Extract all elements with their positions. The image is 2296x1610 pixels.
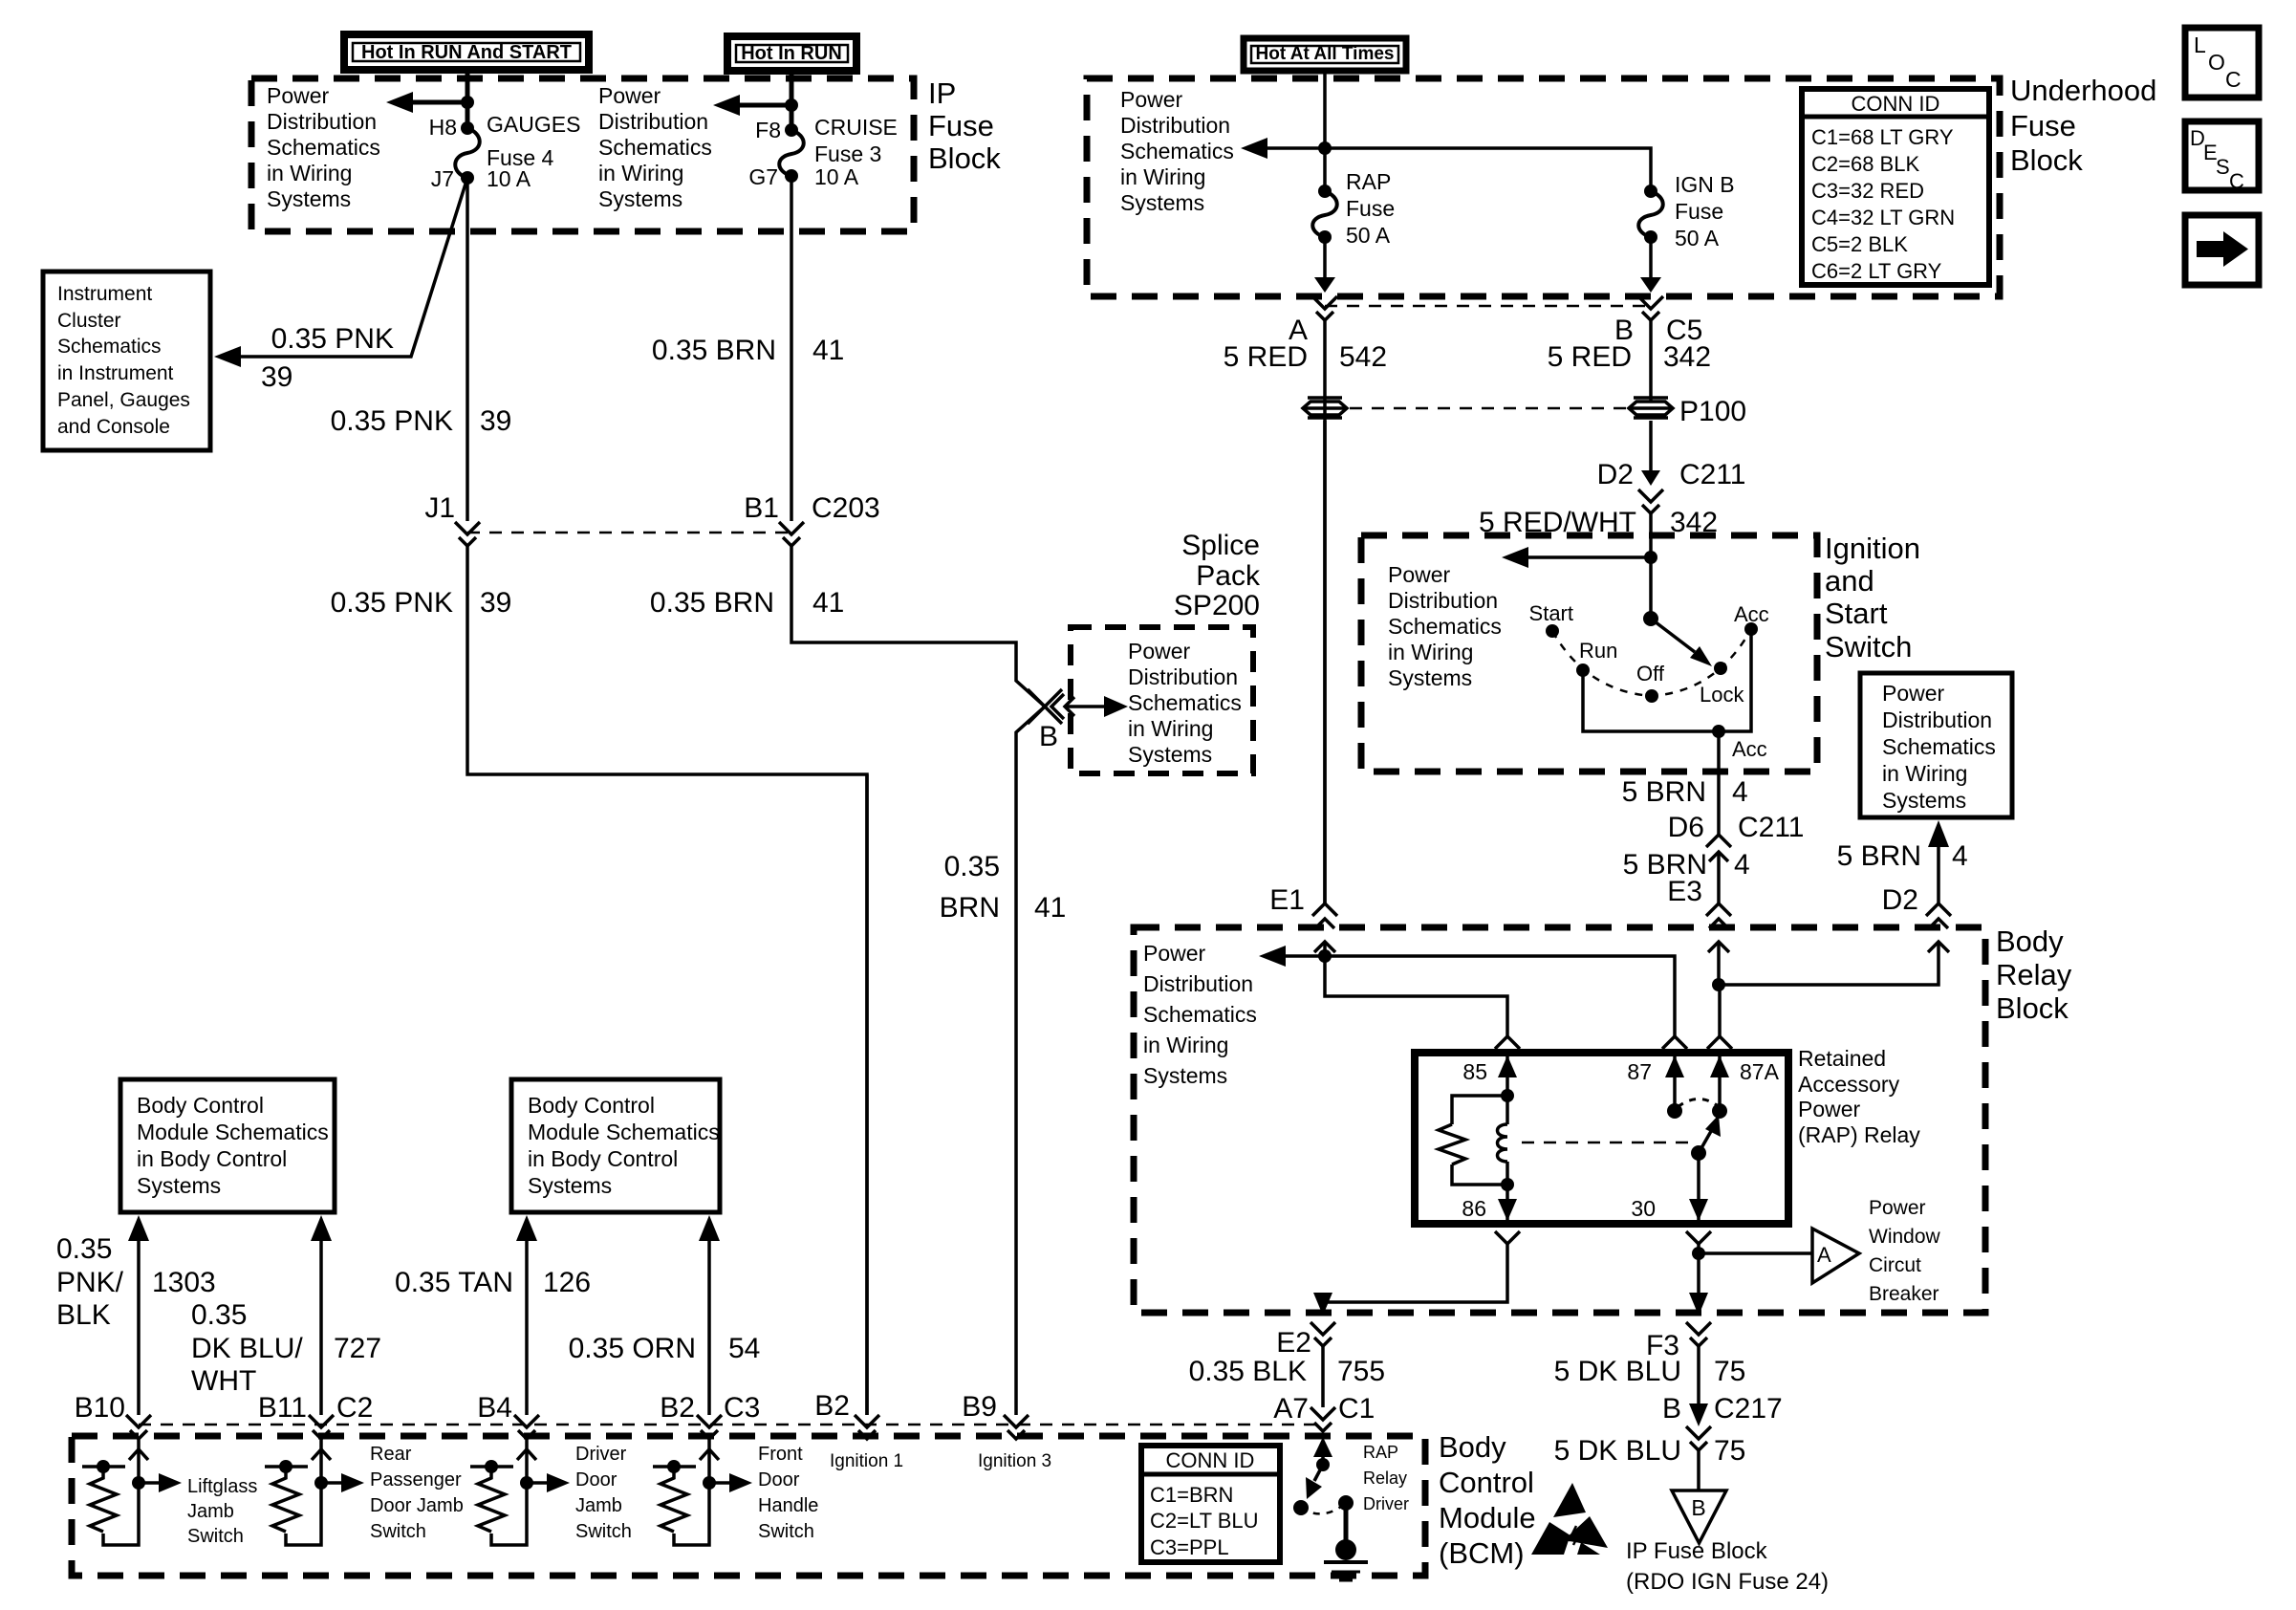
label: Body Relay Block	[1996, 925, 2072, 1025]
svg-text:in Wiring: in Wiring	[1128, 716, 1213, 741]
svg-text:B1: B1	[744, 492, 779, 524]
svg-text:Distribution: Distribution	[1128, 664, 1238, 689]
fuse CRUISE Fuse 3: terminal G7	[785, 169, 798, 183]
svg-text:39: 39	[261, 361, 292, 393]
svg-text:Ignition: Ignition	[1825, 532, 1920, 565]
svg-text:C217: C217	[1714, 1393, 1783, 1425]
label: Front Door Handle Switch	[758, 1444, 818, 1542]
LOC box	[2185, 28, 2259, 98]
svg-text:Distribution: Distribution	[1388, 588, 1498, 613]
wire: 87A riser down to relay	[1718, 985, 1722, 1038]
svg-text:IGN B: IGN B	[1675, 172, 1735, 197]
fuse IGN B element	[1638, 191, 1663, 237]
svg-text:A: A	[1817, 1243, 1831, 1267]
svg-text:IP Fuse Block: IP Fuse Block	[1626, 1538, 1768, 1564]
switch position dot Run	[1576, 664, 1590, 677]
svg-text:Body: Body	[1439, 1430, 1506, 1464]
wire: E3 down to junction with 87A	[1717, 942, 1721, 985]
svg-text:O: O	[2208, 50, 2225, 75]
connector E3 (chevrons)	[1706, 903, 1731, 916]
svg-text:0.35 BLK: 0.35 BLK	[1189, 1356, 1307, 1387]
label: Liftglass Jamb Switch	[187, 1476, 257, 1547]
svg-text:10 A: 10 A	[814, 164, 859, 189]
switch position dot Acc	[1744, 622, 1758, 636]
svg-text:CRUISE: CRUISE	[814, 115, 898, 140]
svg-text:0.35 TAN: 0.35 TAN	[395, 1267, 513, 1298]
svg-text:542: 542	[1339, 341, 1387, 373]
P100 pass-through connector (right)	[1629, 398, 1673, 418]
svg-text:Start: Start	[1529, 601, 1573, 625]
jamb switch 3: Driver Door Jamb	[470, 1439, 632, 1545]
svg-text:J7: J7	[431, 166, 454, 191]
svg-text:Distribution: Distribution	[1882, 707, 1992, 732]
wire: RAP fuse output with arrowhead at box edge	[1323, 237, 1327, 277]
svg-text:Schematics: Schematics	[267, 135, 380, 160]
svg-text:75: 75	[1714, 1435, 1745, 1467]
connector chevrons (B11 C2)	[309, 1415, 334, 1427]
wire: 30 output down out of block with arrowhead	[1697, 1244, 1700, 1312]
dashed arc through switch positions	[1552, 629, 1751, 696]
wire: E1 long vertical (RAP fuse to body relay block)	[1323, 320, 1327, 903]
flow arrowhead below edge on D2 wire	[1928, 942, 1949, 952]
label box: Hot At All Times	[1244, 38, 1406, 71]
svg-text:5 RED: 5 RED	[1548, 341, 1632, 373]
svg-text:Run: Run	[1579, 639, 1617, 663]
connector chevron above relay 85	[1495, 1036, 1520, 1049]
svg-text:Systems: Systems	[1882, 788, 1966, 813]
body relay block inner text	[1143, 941, 1257, 1088]
svg-text:0.35 PNK: 0.35 PNK	[271, 323, 394, 355]
svg-text:Hot In RUN And START: Hot In RUN And START	[361, 42, 572, 63]
box: Body Control Module Schematics (right)	[511, 1079, 720, 1212]
svg-text:C: C	[2229, 169, 2244, 193]
IP fuse block dashed box	[251, 78, 914, 231]
BCM dashed box	[72, 1436, 1425, 1576]
svg-text:0.35 PNK: 0.35 PNK	[331, 405, 453, 437]
dashed contact throw arc	[1678, 1099, 1717, 1107]
switch position dot Start	[1546, 624, 1559, 638]
svg-text:B11: B11	[258, 1392, 307, 1424]
svg-text:41: 41	[812, 587, 844, 619]
dashed mechanical link coil to switch	[1522, 1142, 1688, 1144]
wire: Ignition 1 feed (B2 mid)	[865, 774, 869, 1415]
svg-text:Panel, Gauges: Panel, Gauges	[57, 389, 190, 411]
resistor branch (parallel with coil)	[1452, 1096, 1507, 1124]
wire: branch to power window circuit breaker	[1699, 1251, 1812, 1255]
svg-text:30: 30	[1631, 1196, 1656, 1221]
svg-text:Schematics: Schematics	[1388, 614, 1502, 639]
svg-text:Body: Body	[1996, 925, 2064, 958]
svg-text:Schematics: Schematics	[598, 135, 712, 160]
fuse RAP element	[1312, 191, 1337, 237]
fuse RAP: bottom terminal	[1318, 230, 1332, 244]
svg-text:B: B	[1039, 721, 1058, 752]
junction on 30 output	[1692, 1247, 1705, 1260]
svg-text:C5=2 BLK: C5=2 BLK	[1811, 232, 1908, 256]
ignition box inner text	[1388, 562, 1502, 690]
connector F3 (chevrons)	[1686, 1322, 1711, 1335]
svg-text:Splice: Splice	[1181, 530, 1260, 561]
svg-text:86: 86	[1462, 1196, 1486, 1221]
flow arrowhead below edge on E1 wire	[1314, 942, 1335, 952]
wire: E1 branch to relay 85 terminal	[1325, 956, 1507, 1038]
splice chevrons	[1051, 694, 1064, 719]
label box: Hot In RUN	[727, 36, 856, 71]
fuse IGN B: top terminal	[1644, 185, 1657, 198]
wire: left P100 continues down (E1)	[1323, 421, 1327, 903]
svg-text:E2: E2	[1276, 1327, 1311, 1359]
svg-text:B: B	[1662, 1393, 1681, 1425]
dashed line between P100 halves	[1350, 407, 1626, 410]
wire: 0.35 PNK 39 branch to instrument cluster (diagonal + arrow)	[241, 178, 467, 357]
wire: arrow left (power distribution)	[1286, 954, 1325, 958]
svg-text:WHT: WHT	[191, 1365, 256, 1397]
wire: B11 up into box with arrowhead	[319, 1229, 323, 1415]
svg-text:IP: IP	[928, 76, 956, 110]
junction coil bottom	[1501, 1178, 1514, 1191]
svg-text:C3: C3	[724, 1392, 760, 1424]
svg-text:Body Control: Body Control	[528, 1093, 655, 1118]
relay switch common junction	[1691, 1145, 1706, 1161]
svg-text:Rear: Rear	[370, 1444, 412, 1465]
wire: 0.35 BRN below B1 down, right, jog through splice, down to B9 column	[791, 546, 1045, 1415]
svg-text:5 DK BLU: 5 DK BLU	[1554, 1435, 1681, 1467]
svg-text:Systems: Systems	[1128, 742, 1212, 767]
connector chevron below relay 86	[1495, 1231, 1520, 1244]
svg-text:Schematics: Schematics	[57, 336, 162, 358]
svg-text:C1=BRN: C1=BRN	[1150, 1483, 1233, 1507]
svg-text:BLK: BLK	[56, 1299, 111, 1331]
flow arrowhead below edge on E3 wire	[1708, 942, 1729, 952]
wire: B10 up into box with arrowhead	[137, 1229, 141, 1415]
svg-text:54: 54	[728, 1333, 760, 1364]
svg-text:Door Jamb: Door Jamb	[370, 1495, 464, 1516]
wire: arrow to power distribution (left) from GAUGES feed	[406, 100, 467, 105]
connector chevrons at BCM edge (B10)	[126, 1415, 151, 1427]
jamb switch 2: Rear Passenger Door Jamb	[265, 1439, 464, 1545]
svg-text:Lock: Lock	[1700, 683, 1744, 707]
svg-text:342: 342	[1663, 341, 1711, 373]
solid box: Power Distribution Schematics (right)	[1860, 673, 2012, 817]
svg-text:Power: Power	[1882, 681, 1945, 706]
svg-text:Distribution: Distribution	[598, 109, 708, 134]
resistor zigzag	[1439, 1124, 1465, 1164]
switch position dot Off	[1645, 689, 1658, 703]
svg-text:5 BRN: 5 BRN	[1622, 776, 1706, 808]
relay switch lever with arrowhead toward 87A	[1699, 1126, 1714, 1153]
wire: Run contact to Acc output bracket	[1583, 629, 1751, 731]
svg-text:C2: C2	[336, 1392, 373, 1424]
connector A (chevrons)	[1312, 296, 1337, 309]
connector J1 (chevrons)	[455, 522, 480, 534]
svg-text:S: S	[2216, 155, 2230, 179]
relay coil (bumps)	[1505, 1096, 1509, 1124]
svg-text:C1: C1	[1338, 1393, 1375, 1425]
svg-text:Block: Block	[928, 141, 1001, 175]
svg-text:Ignition 3: Ignition 3	[978, 1451, 1051, 1471]
wire: E1 inside block, junction and branches	[1323, 942, 1327, 956]
junction 87A riser	[1712, 978, 1725, 991]
wire: E2 short vertical	[1321, 1346, 1325, 1407]
DESC box	[2185, 121, 2259, 193]
thin dashed line across BCM connector row	[139, 1424, 1323, 1426]
svg-text:B2: B2	[660, 1392, 695, 1424]
IP fuse block inner text 2	[598, 83, 712, 211]
svg-text:0.35 PNK: 0.35 PNK	[331, 587, 453, 619]
svg-text:5 RED: 5 RED	[1224, 341, 1308, 373]
svg-text:Systems: Systems	[1143, 1063, 1227, 1088]
svg-text:DK BLU/: DK BLU/	[191, 1333, 303, 1364]
svg-text:E3: E3	[1667, 876, 1702, 907]
wire: C5 output down to P100	[1649, 320, 1653, 402]
svg-text:C2=LT BLU: C2=LT BLU	[1150, 1509, 1259, 1533]
connector chevrons (B9 ignition 3)	[1004, 1415, 1029, 1427]
relay pin 30 wire with down arrowhead	[1697, 1153, 1700, 1224]
svg-text:Fuse: Fuse	[2010, 109, 2076, 142]
svg-text:P100: P100	[1679, 396, 1746, 427]
splice SP200 X symbol	[1028, 689, 1062, 724]
connector A7 C1 (chevrons)	[1310, 1407, 1335, 1420]
svg-text:Power: Power	[1388, 562, 1451, 587]
fuse CRUISE Fuse 3 element	[779, 130, 804, 176]
label: 0.35 DK BLU/ WHT	[191, 1299, 303, 1397]
splice arrow into SP200 box	[1067, 705, 1104, 708]
svg-text:Hot In RUN: Hot In RUN	[741, 43, 842, 64]
ground symbol	[1324, 1560, 1368, 1564]
connector C217 (chevrons)	[1686, 1426, 1711, 1439]
svg-text:in Wiring: in Wiring	[1120, 164, 1205, 189]
svg-text:C211: C211	[1679, 459, 1746, 490]
thin dashed line joining A and B C5 connectors	[1325, 305, 1651, 308]
connector D2 (chevrons)	[1926, 903, 1951, 916]
junction on RAP feed	[1318, 141, 1332, 155]
svg-text:Schematics: Schematics	[1143, 1002, 1257, 1027]
ignition switch lever (arrow toward Lock/Acc)	[1651, 619, 1695, 652]
fuse IGN B: bottom terminal	[1644, 230, 1657, 244]
svg-text:GAUGES: GAUGES	[487, 112, 580, 137]
svg-text:in Wiring: in Wiring	[1143, 1033, 1228, 1057]
label box: Hot In RUN And START	[344, 34, 589, 70]
connector chevron above relay 87A	[1707, 1036, 1732, 1049]
wire: down to B triangle	[1697, 1450, 1700, 1490]
svg-text:4: 4	[1732, 776, 1748, 808]
svg-text:Power: Power	[1120, 87, 1183, 112]
RAP relay driver: arrow up to A7	[1321, 1453, 1325, 1465]
label: IGN B Fuse 50 A	[1675, 172, 1735, 250]
wire: E1 to relay 87 terminal	[1325, 956, 1675, 1038]
RAP relay driver pivot	[1316, 1458, 1330, 1471]
junction on GAUGES feed	[461, 96, 474, 109]
svg-text:C1=68 LT GRY: C1=68 LT GRY	[1811, 125, 1954, 149]
svg-text:5 DK BLU: 5 DK BLU	[1554, 1356, 1681, 1387]
svg-text:B10: B10	[75, 1392, 125, 1424]
svg-text:(RAP) Relay: (RAP) Relay	[1798, 1122, 1920, 1147]
svg-text:and: and	[1825, 564, 1874, 598]
connector B1 (chevrons)	[779, 522, 804, 534]
svg-text:126: 126	[543, 1267, 591, 1298]
svg-text:10 A: 10 A	[487, 166, 531, 191]
svg-text:J1: J1	[424, 492, 455, 524]
Ignition and Start Switch dashed box	[1361, 535, 1817, 772]
switch position dot Lock	[1714, 662, 1727, 675]
wire: B4 up into box with arrowhead	[525, 1229, 529, 1415]
flow arrowheads inside BCM on jamb wires	[129, 1449, 148, 1460]
box: Instrument Cluster Schematics	[43, 272, 210, 450]
svg-text:Door: Door	[575, 1469, 617, 1490]
relay pin 85 wire with up arrowhead	[1505, 1053, 1509, 1096]
svg-text:Fuse: Fuse	[1675, 199, 1723, 224]
connector chevron below relay 30	[1686, 1231, 1711, 1244]
box: Body Control Module Schematics (left)	[120, 1079, 335, 1212]
svg-text:F8: F8	[755, 118, 781, 142]
P100 pass-through connector (left)	[1303, 398, 1347, 418]
ESD symbol	[1531, 1483, 1608, 1555]
svg-text:Schematics: Schematics	[1882, 734, 1996, 759]
wire: F3 down to C217 with arrowhead	[1697, 1346, 1700, 1417]
svg-text:Systems: Systems	[267, 186, 351, 211]
svg-text:50 A: 50 A	[1675, 226, 1720, 250]
wire: ignition feed with left arrow	[1649, 513, 1653, 619]
svg-text:Jamb: Jamb	[187, 1501, 234, 1522]
svg-text:Door: Door	[758, 1469, 800, 1490]
svg-text:Systems: Systems	[137, 1173, 221, 1198]
svg-text:(RDO IGN Fuse 24): (RDO IGN Fuse 24)	[1626, 1569, 1829, 1595]
wire: Hot In RUN And START feed down to fuse H8	[466, 70, 470, 128]
IP fuse block inner text 1	[267, 83, 380, 211]
ground stem with ball	[1344, 1503, 1349, 1541]
svg-text:(BCM): (BCM)	[1439, 1536, 1525, 1570]
fuse GAUGES Fuse 4: terminal J7	[461, 171, 474, 185]
connector chevrons (B2 ignition 1)	[855, 1415, 879, 1427]
svg-text:41: 41	[812, 335, 844, 366]
svg-text:C: C	[2225, 67, 2242, 92]
wire: 86 down, left, out of block with arrowhead	[1323, 1244, 1507, 1312]
jamb switch 4: Front Door Handle	[653, 1439, 818, 1545]
svg-text:D2: D2	[1882, 884, 1918, 916]
wire: E3 wire down to body relay block	[1717, 852, 1721, 903]
wire: B2 up into box with arrowhead	[707, 1229, 711, 1415]
svg-text:41: 41	[1034, 892, 1066, 924]
svg-text:75: 75	[1714, 1356, 1745, 1387]
jamb switch 1: Liftglass	[82, 1439, 257, 1547]
wire: Acc output down through box edge	[1717, 731, 1721, 835]
SP200 inner text	[1128, 639, 1242, 767]
SP200 dashed box	[1071, 627, 1253, 773]
wire: D2 column up into solid box with arrowhead	[1937, 847, 1940, 903]
svg-text:G7: G7	[748, 164, 778, 189]
svg-text:in Body Control: in Body Control	[528, 1146, 678, 1171]
svg-text:E1: E1	[1269, 884, 1305, 916]
label: Underhood Fuse Block	[2010, 74, 2156, 177]
svg-text:Handle: Handle	[758, 1495, 818, 1516]
junction + arrow to label	[132, 1476, 145, 1490]
svg-text:0.35 ORN: 0.35 ORN	[569, 1333, 696, 1364]
CONN ID table (underhood)	[1802, 89, 1989, 285]
svg-text:Systems: Systems	[1120, 190, 1204, 215]
svg-text:Pack: Pack	[1196, 560, 1261, 592]
svg-text:C3=32 RED: C3=32 RED	[1811, 179, 1924, 203]
svg-text:Relay: Relay	[1996, 958, 2072, 991]
label: IP Fuse Block	[928, 76, 1001, 175]
svg-text:4: 4	[1952, 840, 1968, 872]
svg-text:in Wiring: in Wiring	[1882, 761, 1967, 786]
svg-text:39: 39	[480, 405, 511, 437]
svg-text:SP200: SP200	[1174, 590, 1260, 621]
junction coil top	[1501, 1089, 1514, 1102]
label: Rear Passenger Door Jamb Switch	[370, 1444, 464, 1542]
wire: IGN B fuse output with arrowhead at box edge	[1649, 237, 1653, 277]
svg-text:A7: A7	[1273, 1393, 1309, 1425]
wire B10 inside BCM	[103, 1439, 139, 1545]
svg-text:Cluster: Cluster	[57, 310, 121, 332]
wire: 0.35 PNK vertical from J7 down to J1	[466, 178, 469, 521]
svg-text:Switch: Switch	[187, 1526, 244, 1547]
fuse GAUGES Fuse 4: terminal H8	[461, 121, 474, 135]
RAP relay driver lever with arrowhead	[1314, 1465, 1323, 1481]
svg-text:Systems: Systems	[598, 186, 682, 211]
connector D6 C211 (chevron + arrowhead up)	[1706, 835, 1731, 847]
wire: Hot In RUN feed down to fuse F8	[790, 71, 794, 130]
svg-text:Switch: Switch	[1825, 630, 1912, 664]
label: Splice Pack SP200	[1174, 530, 1261, 621]
svg-text:Switch: Switch	[575, 1521, 632, 1542]
svg-text:Distribution: Distribution	[267, 109, 377, 134]
svg-text:Block: Block	[1996, 991, 2069, 1025]
svg-text:Schematics: Schematics	[1128, 690, 1242, 715]
svg-text:Accessory: Accessory	[1798, 1072, 1900, 1097]
svg-text:Systems: Systems	[528, 1173, 612, 1198]
relay pin 86 wire with down arrowhead	[1505, 1185, 1509, 1224]
svg-text:Underhood: Underhood	[2010, 74, 2156, 107]
svg-text:Power: Power	[1128, 639, 1191, 664]
label: 0.35 PNK/ BLK	[56, 1233, 124, 1331]
svg-text:39: 39	[480, 587, 511, 619]
svg-text:Power: Power	[1143, 941, 1206, 966]
svg-text:Power: Power	[1869, 1197, 1926, 1219]
circuit breaker triangle A	[1812, 1229, 1859, 1283]
svg-text:Power: Power	[1798, 1097, 1861, 1121]
label: Driver Door Jamb Switch	[575, 1444, 632, 1542]
svg-text:Hot At All Times: Hot At All Times	[1256, 44, 1395, 64]
connector E2 (chevrons)	[1310, 1322, 1335, 1335]
svg-text:87A: 87A	[1740, 1059, 1780, 1084]
junction on CRUISE feed	[785, 98, 798, 112]
svg-text:Module Schematics: Module Schematics	[137, 1120, 329, 1144]
svg-text:B9: B9	[962, 1391, 997, 1423]
svg-text:C203: C203	[812, 492, 880, 524]
svg-text:1303: 1303	[152, 1267, 216, 1298]
svg-text:B2: B2	[814, 1390, 850, 1422]
junction at ignition feed	[1644, 551, 1657, 564]
connector C211 (chevrons)	[1638, 490, 1663, 502]
wire: Hot At All Times feed down	[1323, 71, 1327, 191]
svg-text:RAP: RAP	[1346, 169, 1391, 194]
relay pin 87 wire with up arrowhead and contact	[1673, 1053, 1677, 1111]
svg-text:Driver: Driver	[1363, 1494, 1409, 1513]
wire: arrow left from RAP feed + branch to IGN B	[1267, 148, 1651, 191]
switch bar and pivot	[82, 1465, 125, 1469]
relay pin 87A wire with up arrowhead and contact	[1718, 1053, 1722, 1111]
svg-text:H8: H8	[429, 115, 457, 140]
junction on Acc output	[1712, 725, 1725, 738]
fuse GAUGES Fuse 4 element	[455, 128, 480, 178]
RAP relay box	[1415, 1053, 1788, 1224]
svg-text:727: 727	[334, 1333, 381, 1364]
label: IP Fuse Block (RDO IGN Fuse 24)	[1626, 1538, 1829, 1595]
svg-text:Switch: Switch	[758, 1521, 814, 1542]
wire: right P100 down to C211 with arrowhead	[1649, 421, 1653, 474]
svg-text:Passenger: Passenger	[370, 1469, 462, 1490]
